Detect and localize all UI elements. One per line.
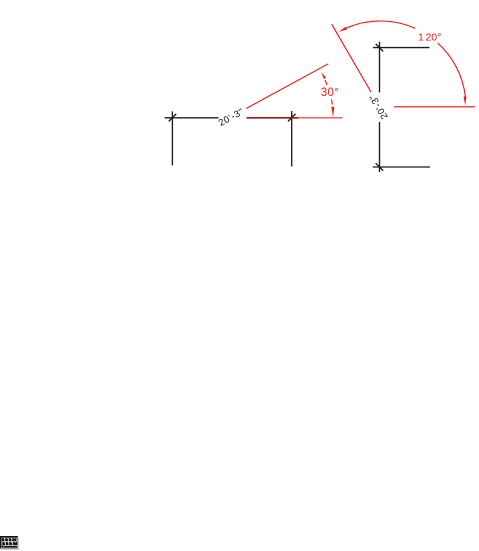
svg-text:30°: 30° bbox=[321, 87, 340, 99]
svg-text:120°: 120° bbox=[418, 32, 441, 44]
